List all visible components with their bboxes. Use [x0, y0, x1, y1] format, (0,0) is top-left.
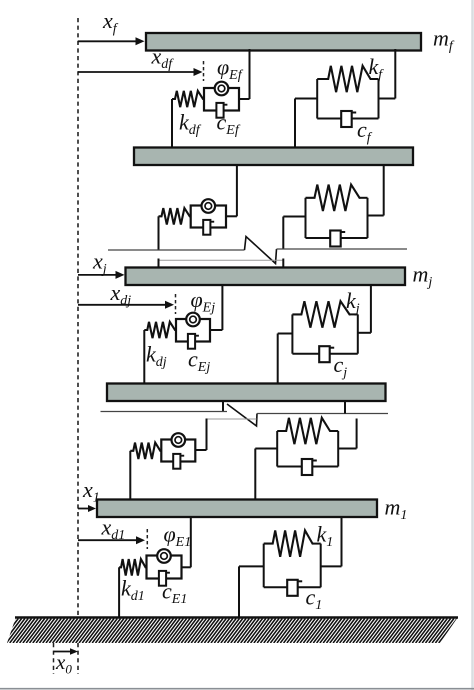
- label c_Ef: [217, 110, 241, 139]
- upper cut line (break 2): [101, 411, 228, 413]
- wire bar4 to cut (right): [344, 400, 346, 414]
- wire spring to bar m_1 (mid2): [129, 451, 131, 501]
- left rail (k_j branch): [291, 314, 293, 353]
- spring k_df: [172, 91, 204, 107]
- wire box to bar m_f: [249, 49, 251, 99]
- arrow x_f: [78, 37, 145, 45]
- mass bar m_f: [146, 33, 421, 51]
- label x_dj: [110, 280, 132, 309]
- left tap wire (k_1 branch): [239, 566, 264, 617]
- right-end link spring k_1: [314, 543, 321, 545]
- arrow x_0: [54, 648, 79, 655]
- bottom rail (mid2 k branch): [277, 466, 338, 468]
- wire bar4-top to spring k_dj: [143, 330, 145, 385]
- damper c_f: [341, 111, 356, 127]
- ground hatching: [0, 619, 474, 644]
- wire box to bar m_j: [221, 284, 223, 330]
- lower cut line (break 2): [207, 418, 257, 420]
- link wire to device box (mid): [226, 215, 237, 217]
- right page border: [471, 0, 474, 690]
- dashed tick at device x_dj: [175, 294, 177, 314]
- link box to wire (j): [210, 329, 222, 331]
- arrow x_j: [78, 271, 125, 279]
- arrow x_df: [78, 68, 203, 76]
- right tap wire (mid k branch): [368, 215, 384, 217]
- left tap wire (mid k branch): [283, 216, 305, 218]
- wire cut to bar m_j (right): [282, 259, 284, 269]
- label c_E1: [162, 579, 187, 608]
- right tap wire (mid2 k branch): [338, 448, 356, 450]
- right-end link (mid k): [361, 197, 368, 199]
- mass bar m_1: [97, 500, 377, 518]
- right rail (k_j branch): [357, 314, 359, 353]
- label m_j: [413, 262, 433, 291]
- left tap wire (k_j branch): [278, 334, 293, 385]
- damper (mid upper): [330, 231, 345, 247]
- right rail (mid k branch): [367, 198, 369, 238]
- floor bar below m_j: [107, 384, 386, 402]
- spring (mid upper left): [159, 208, 191, 224]
- damper c_j: [319, 346, 334, 362]
- label x_j: [92, 249, 107, 278]
- label k_j: [346, 288, 360, 317]
- arrow x_1: [78, 505, 96, 512]
- label phi_Ej: [191, 287, 216, 316]
- right rail (k_f branch): [378, 79, 380, 119]
- right-end link spring k_j: [351, 313, 358, 315]
- right-end link (mid2 k): [331, 430, 338, 432]
- label phi_E1: [164, 522, 192, 551]
- left tap wire (mid2 k branch): [255, 449, 277, 501]
- link box to wire (f): [239, 98, 250, 100]
- wire cut to device box (mid2): [206, 419, 208, 451]
- right cut line (break 2): [257, 413, 388, 415]
- wire cut to bar m_j (left): [158, 259, 160, 269]
- link wire to device box (mid2): [195, 449, 206, 451]
- device box U_1 with inerter and damper: [147, 549, 182, 586]
- label c_f: [357, 117, 373, 146]
- label k_1: [317, 522, 334, 551]
- device box U_j with inerter and damper: [176, 313, 210, 349]
- lower cut line (break 1): [159, 259, 284, 261]
- device box (mid lower): [161, 433, 195, 468]
- arrow x_d1: [78, 536, 145, 544]
- spring k_f: [317, 66, 371, 92]
- left rail (k_f branch): [316, 79, 318, 119]
- right rail (mid2 k branch): [337, 431, 339, 467]
- label x_1: [82, 477, 100, 506]
- bottom page border: [0, 688, 474, 690]
- zigzag break mark 2: [227, 404, 257, 426]
- wire spring to cut line (mid): [158, 216, 160, 250]
- label k_f: [369, 54, 385, 83]
- wire left tap to cut (mid k branch): [282, 217, 284, 250]
- device box U_f with inerter and damper: [204, 82, 239, 118]
- left rail (mid2 k branch): [276, 431, 278, 467]
- label m_1: [385, 495, 408, 524]
- wire bar2 to device box (mid): [236, 164, 238, 216]
- label k_dj: [146, 342, 167, 371]
- label phi_Ef: [217, 55, 244, 84]
- spring (mid upper right): [306, 185, 361, 211]
- wire bar2 to right tap (mid k): [383, 164, 385, 216]
- label x_d1: [101, 515, 126, 544]
- right tap wire (k_1 branch): [321, 565, 342, 567]
- wire k_1 branch to bar m_1: [341, 516, 343, 566]
- spring k_d1: [119, 559, 146, 575]
- spring k_dj: [144, 322, 176, 338]
- mass bar m_j: [126, 268, 406, 286]
- damper c_1: [287, 580, 302, 596]
- bottom rail (k_1 branch): [264, 586, 321, 588]
- wire k_f branch to bar m_f: [394, 49, 396, 99]
- vertical dashed reference line: [77, 18, 79, 674]
- label x_df: [151, 44, 175, 73]
- label c_j: [334, 352, 348, 381]
- wire ground to spring k_d1: [118, 567, 120, 617]
- wire right tap to cut (mid2 k): [356, 419, 358, 449]
- bottom rail (k_j branch): [292, 353, 357, 355]
- ground surface line: [15, 616, 458, 619]
- upper cut line (break 1): [108, 249, 245, 251]
- bottom rail (mid k branch): [306, 237, 368, 239]
- label k_df: [179, 110, 202, 139]
- wire bar2-top to spring k_df: [171, 99, 173, 149]
- left rail (mid k branch): [305, 198, 307, 238]
- right tap wire (k_j branch): [358, 332, 371, 334]
- spring k_1: [264, 530, 314, 556]
- label k_d1: [121, 576, 145, 605]
- right tap wire (k_f branch): [379, 98, 396, 100]
- spring (mid lower right): [277, 418, 331, 444]
- label c_Ej: [188, 347, 210, 376]
- wire box to bar m_1: [190, 516, 192, 567]
- label m_f: [433, 26, 455, 55]
- right rail (k_1 branch): [320, 544, 322, 588]
- wire k_j branch to bar m_j: [370, 284, 372, 333]
- label c_1: [306, 585, 323, 614]
- zigzag break mark 1: [245, 237, 277, 264]
- dashed tick at device x_df: [203, 61, 205, 81]
- dashed reference tick left of x_0: [53, 643, 55, 674]
- floor bar below m_f: [134, 148, 413, 166]
- dashed tick at device x_d1: [146, 529, 148, 549]
- bottom rail (k_f branch): [317, 118, 378, 120]
- spring k_j: [292, 301, 350, 327]
- arrow x_dj: [78, 301, 174, 309]
- left tap wire (k_f branch): [295, 99, 317, 149]
- device box (mid upper): [191, 199, 226, 235]
- wire bar4 to cut (left): [222, 400, 224, 412]
- right cut line (break 1): [277, 248, 408, 250]
- label x_f: [102, 8, 119, 37]
- damper (mid lower): [302, 459, 317, 475]
- left rail (k_1 branch): [263, 544, 265, 588]
- label x_0: [55, 650, 72, 677]
- link box to wire (1): [182, 566, 191, 568]
- right-end link spring k_f: [372, 78, 379, 80]
- spring (mid lower left): [130, 443, 161, 459]
